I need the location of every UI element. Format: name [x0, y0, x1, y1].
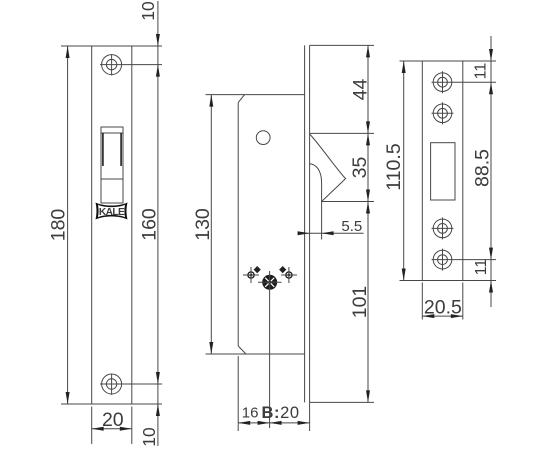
- svg-text:180: 180: [48, 209, 70, 242]
- svg-text:110.5: 110.5: [383, 143, 405, 191]
- dim 110.5: [383, 61, 406, 281]
- svg-text:20.5: 20.5: [424, 297, 462, 319]
- dim 5.5: [298, 218, 364, 235]
- screw hole 3: [432, 217, 454, 239]
- bottom screw hole: [102, 374, 122, 395]
- fastening hole left: [243, 266, 261, 283]
- KALE logo: [96, 203, 128, 220]
- faceplate outline: [92, 46, 132, 404]
- latch bolt front: [101, 127, 123, 203]
- svg-text:10: 10: [139, 427, 159, 447]
- svg-text:130: 130: [192, 208, 214, 241]
- body outline: [238, 95, 246, 354]
- dims 44 / 35 / 101: [310, 45, 374, 402]
- svg-text:11: 11: [473, 259, 490, 276]
- dim 88.5 and 11/11: [472, 36, 494, 307]
- dim 180: [48, 46, 163, 404]
- dim 20 bottom left: [92, 407, 132, 445]
- screw hole 1: [432, 71, 497, 93]
- svg-text:B:20: B:20: [262, 404, 300, 422]
- fastening hole right: [279, 266, 297, 283]
- dim 20.5: [422, 283, 463, 320]
- svg-text:11: 11: [473, 63, 490, 80]
- dim 130: [192, 95, 214, 354]
- extension lines top/bottom: [400, 61, 497, 281]
- svg-text:88.5: 88.5: [472, 149, 494, 187]
- svg-text:5.5: 5.5: [341, 218, 362, 235]
- hook bolt: [310, 134, 346, 240]
- forend strip: [305, 45, 310, 402]
- plate outline: [422, 61, 463, 281]
- bottom edge + 130 extension: [206, 353, 305, 355]
- svg-text:101: 101: [349, 286, 371, 319]
- svg-text:KALE: KALE: [99, 207, 125, 218]
- body hole: [256, 131, 270, 145]
- key hole center: [258, 275, 282, 290]
- svg-text:10: 10: [138, 1, 158, 21]
- svg-text:44: 44: [350, 79, 372, 101]
- dim 160 and 10/10: [100, 1, 162, 447]
- svg-text:16: 16: [242, 405, 259, 422]
- center extension down: [269, 271, 271, 428]
- svg-text:160: 160: [139, 208, 161, 241]
- dims 16 / B:20: [238, 356, 309, 431]
- screw hole 2: [432, 102, 454, 124]
- svg-text:20: 20: [102, 409, 124, 431]
- screw hole 4: [432, 249, 497, 271]
- svg-text:35: 35: [349, 157, 371, 179]
- top edge + 130 extension: [206, 94, 305, 96]
- cutout: [431, 143, 455, 200]
- top screw hole: [102, 54, 122, 75]
